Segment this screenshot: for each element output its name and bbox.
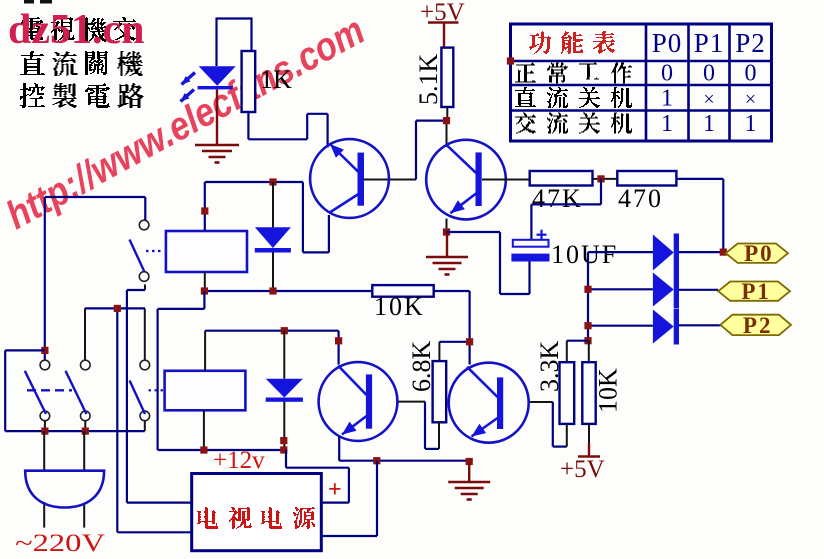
wire junction to cap bottom [447,231,501,233]
diode D5 (P1) [653,273,674,307]
wire 10K top lead [588,341,590,363]
wire relay rail to 10K [204,290,372,292]
svg-text:0: 0 [745,61,757,87]
svg-text:+12v: +12v [213,447,265,474]
svg-text:47K: 47K [532,184,583,213]
svg-text:P0: P0 [652,28,683,58]
svg-text:P1: P1 [694,28,725,58]
bus vertical to resistors [587,252,589,341]
wire top rail y182 [205,181,303,183]
resistor R6 10K horizontal [372,285,433,297]
wire P0 row [588,251,653,253]
junction dot P0 [720,249,727,256]
svg-text:5.1K: 5.1K [414,54,443,106]
transistor Q1 [310,139,389,218]
switch S2a [40,360,50,370]
resistor R4 47K [530,171,593,186]
wire K1 bottom pin [204,272,206,291]
svg-text:P2: P2 [743,313,773,338]
table 功能表 frame [511,24,772,141]
wire TV box left pins [116,308,118,532]
wire junction down to cap top [600,179,602,205]
title line 1 (black chinese) 電視機交 [20,17,43,40]
dotted link S3 to K2 [149,389,164,391]
wire relay rail to +12v rail [203,291,205,309]
title line 3 控製電路 [20,83,45,108]
clipped text top edge [24,0,34,4]
capacitor C1 10UF [513,240,549,247]
svg-text:P1: P1 [741,279,771,304]
svg-text:dz51.cn: dz51.cn [8,7,145,53]
port P1 [718,282,790,301]
svg-text:1: 1 [661,111,673,137]
switch S1 [139,220,149,230]
wire row2 tops rail [85,307,145,309]
resistor R8 10K [582,362,595,424]
table row label 交流关机 [515,113,536,134]
AC plug symbol [25,471,104,508]
junction dot left column [41,347,48,354]
relay K2 [165,371,246,411]
wire LED top [217,17,253,19]
TV power supply box 电视电源 [192,474,322,551]
resistor R2 1K [242,51,256,112]
wire Q3 base loop [397,401,425,403]
wire K2 bottom pin [203,410,205,450]
junction dot on table left edge [507,57,514,64]
diode D6 (P2) [653,310,674,344]
wire 1K bottom to Q1 emitter [247,112,249,139]
wire P1 row [588,288,653,290]
transistor Q2 [426,140,506,220]
switch S3 [140,360,150,370]
svg-text:P2: P2 [735,28,766,58]
wire Q4 base loop [529,401,552,403]
wire K2 top rail [205,330,339,332]
diode D1 [272,182,274,227]
wire switch bottom stubs [44,421,46,432]
svg-text:1: 1 [703,111,715,137]
wire 47K-470 [593,178,618,180]
svg-text:470: 470 [618,184,663,213]
svg-text:+5V: +5V [560,456,605,483]
svg-text:~220V: ~220V [15,530,105,557]
relay K1 [166,231,247,272]
svg-text:0: 0 [703,61,715,87]
resistor R3 5.1K [441,48,453,107]
table header 功能表 [529,31,551,54]
diode D2 [283,331,285,379]
wire Q2 emitter ground stem [446,232,448,257]
svg-text:×: × [703,89,714,111]
wire junction to Q2 collector [446,121,448,147]
junction dot 6.8K top [466,338,473,345]
port P2 [720,315,791,335]
wire +12v jog to TV box + terminal [285,450,287,468]
transistor Q4 [449,363,529,443]
wire S1 top rail [45,196,146,198]
LED light arrows [182,73,196,85]
+12v rail [158,449,286,451]
wire bus to 3.3K top [567,340,589,342]
svg-text:10UF: 10UF [551,240,618,269]
ground below LED [195,144,239,147]
wire Q1 collector path [302,182,304,252]
ground below Q4 [448,481,490,484]
wire Q2 base [482,179,530,181]
svg-text:6.8K: 6.8K [407,341,436,393]
title line 2 直流關機 [20,51,45,75]
resistor R5 470 [617,171,676,186]
junction dot Q2 emitter [443,228,450,235]
wire 10K right down [434,290,470,292]
wire Q2 emitter to junction [446,219,448,233]
resistor R7 3.3K [560,362,575,424]
wire bypass around S-left [5,349,45,351]
diode D4 (P0) [653,235,674,271]
ground below Q2 [426,256,468,259]
svg-text:10K: 10K [594,368,623,413]
wire K1 top pin [204,182,206,231]
wire 470 right to P0 [676,178,723,180]
dashed link S2a-S2b [27,389,72,391]
wire 10K bottom to +5V [588,424,590,443]
wire P2 row [588,325,653,327]
svg-text:10K: 10K [374,292,425,321]
switch S2b [81,360,91,370]
LED D3 [199,66,236,85]
resistor R9 6.8K [433,361,447,422]
svg-text:1K: 1K [260,65,292,94]
wire Q1 base to junction [364,179,416,181]
svg-text:1: 1 [661,86,673,112]
wire 6.8K top junction [439,341,469,343]
table row label 正常工作 [515,63,536,83]
wire plug prongs [43,431,45,471]
wire Q4 emitter ground stem [468,462,470,482]
junction dots relay rail [201,287,208,294]
emitter rail [338,436,340,461]
wire LED cathode [216,89,218,145]
table row label 直流关机 [515,87,536,107]
transistor Q3 [319,362,398,441]
svg-text:×: × [745,89,756,111]
svg-text:1: 1 [745,111,757,137]
wire K2 top pin [204,331,206,371]
junction dot below 5.1K [443,117,450,124]
wire TV box lower right pin [376,461,378,536]
svg-text:0: 0 [661,61,673,87]
junction dot between 47K and 470 [597,175,604,182]
svg-text:3.3K: 3.3K [535,341,564,393]
wire S1 bottom jog [144,285,146,291]
+5V rail bar [428,21,459,24]
port P0 [726,244,788,263]
svg-text:+: + [328,477,342,503]
wire 5.1K bottom [446,107,448,121]
svg-text:P0: P0 [744,241,774,266]
